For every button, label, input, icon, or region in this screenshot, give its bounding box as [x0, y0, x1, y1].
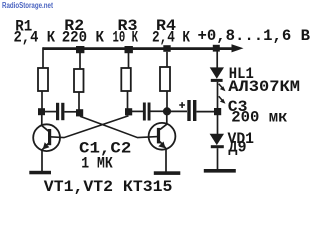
wire node to VD1 — [217, 115, 219, 134]
node VT1 collector junction — [38, 108, 45, 115]
node VT2 base-network junction — [76, 109, 83, 116]
node VT1 base-network junction — [125, 108, 132, 115]
node C3-HL1 junction — [214, 108, 221, 115]
wire C3 right to node — [197, 111, 215, 113]
ground under VD1 — [204, 169, 236, 173]
transistor VT1 — [33, 115, 60, 171]
resistor R3 — [121, 68, 131, 91]
wire R3 top lead — [128, 52, 130, 68]
capacitor C3 — [187, 100, 196, 121]
wire node to C2 left — [132, 110, 143, 112]
capacitor C2 — [143, 103, 151, 121]
wire HL1 top lead — [216, 51, 218, 68]
resistor R2 — [74, 69, 84, 92]
svg-text:220 К: 220 К — [62, 28, 105, 46]
node rail-HL1 junction — [213, 45, 220, 52]
wire node to C1 left — [45, 111, 56, 113]
svg-text:+0,8...1,6 В: +0,8...1,6 В — [198, 27, 311, 45]
capacitor C3 polarity plus — [179, 102, 185, 108]
wire R1 top lead — [42, 47, 44, 68]
wire HL1 to C3 node — [217, 82, 219, 109]
capacitor C1 — [56, 103, 64, 120]
node rail-R2 junction — [76, 46, 84, 53]
transistor VT2 — [149, 114, 176, 172]
diode VD1 cathode bar — [211, 145, 224, 148]
svg-text:VT1,VT2 КТ315: VT1,VT2 КТ315 — [44, 178, 173, 196]
wire C1 right to node — [64, 111, 76, 113]
wire R3 bottom lead — [127, 91, 129, 109]
supply rail arrowhead — [232, 44, 244, 52]
wire R2 bottom lead — [78, 92, 80, 110]
wire R2 top lead — [79, 52, 81, 69]
node rail-R4 junction — [163, 45, 170, 52]
wire top supply rail — [43, 47, 237, 50]
ground under VT1 — [29, 171, 51, 175]
svg-text:RadioStorage.net: RadioStorage.net — [2, 0, 53, 10]
LED HL1 cathode bar — [211, 79, 223, 82]
wire VT1 base coupling diagonal from R3 node — [50, 116, 129, 138]
svg-text:1 МК: 1 МК — [81, 155, 113, 173]
svg-text:АЛ307КМ: АЛ307КМ — [228, 78, 300, 96]
svg-text:10 К: 10 К — [113, 28, 139, 46]
wire R4 top lead — [166, 52, 168, 67]
wire C2 right to node — [151, 110, 165, 112]
wire R4 bottom lead — [166, 91, 168, 109]
wire VT2 base coupling diagonal from R2 node — [80, 116, 158, 137]
ground under VT2 — [154, 171, 181, 175]
svg-text:200 мк: 200 мк — [231, 109, 288, 127]
svg-text:Д9: Д9 — [228, 139, 246, 157]
svg-text:2,4 К: 2,4 К — [152, 28, 190, 46]
LED HL1 emission arrow 2 — [219, 96, 226, 104]
diode VD1 triangle — [210, 134, 224, 145]
wire R1 bottom lead — [41, 91, 43, 109]
wire node to C3 left — [170, 110, 187, 112]
wire VD1 to ground — [217, 148, 219, 169]
node VT2 collector junction — [163, 107, 171, 115]
LED HL1 triangle — [210, 67, 224, 78]
resistor R1 — [38, 68, 48, 91]
node rail-R3 junction — [125, 46, 133, 53]
resistor R4 — [160, 67, 170, 91]
svg-text:2,4 К: 2,4 К — [14, 29, 56, 47]
LED HL1 emission arrow 1 — [219, 84, 226, 92]
